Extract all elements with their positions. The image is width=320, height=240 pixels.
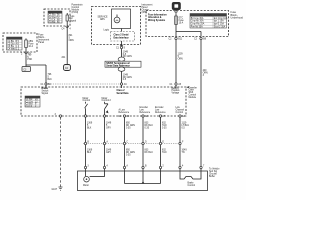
label Instrument Panel Cluster (IPC) — [142, 4, 153, 15]
wire label 821 ORN — [69, 35, 74, 42]
svg-text:Serial Data: Serial Data — [117, 92, 130, 95]
fuse ETC 10A — [175, 16, 178, 25]
node C1 A5 junction — [175, 83, 177, 85]
svg-text:FUSES: FUSES — [204, 15, 212, 17]
label Encoder Signal — [119, 108, 130, 113]
module box: Brake Pressure Modulator Valve (solid) — [78, 171, 208, 191]
splice pack top connector oval — [118, 57, 125, 61]
svg-text:10 A: 10 A — [179, 22, 184, 25]
label Class 2 Serial Data driver — [114, 35, 130, 40]
label Low Channel Control — [176, 107, 185, 114]
inline connector junctions — [84, 141, 184, 145]
svg-text:Control: Control — [176, 111, 184, 114]
serial data connector line (dotted) — [46, 83, 122, 85]
fuse detail table — [190, 14, 228, 29]
svg-text:Panel: Panel — [38, 42, 44, 44]
connector table in IP fuse block — [7, 37, 23, 51]
svg-text:Fuse Information: Fuse Information — [148, 14, 167, 17]
label Fuse Block - Underhood — [231, 11, 244, 20]
module box: Instrument Panel Cluster IPC (dashed) — [92, 7, 141, 45]
wire label 796 5 BLK — [48, 74, 53, 81]
wire lamp box to logic — [121, 29, 123, 32]
svg-text:Ign E 15A: Ign E 15A — [214, 23, 225, 26]
label Pump Motor Control — [83, 97, 91, 102]
svg-text:Allocation &: Allocation & — [148, 16, 162, 19]
node C1 B4 junction — [45, 83, 47, 85]
svg-text:BLK: BLK — [48, 79, 53, 81]
svg-text:Voltage: Voltage — [172, 92, 180, 95]
driver switch valves — [105, 102, 109, 115]
svg-text:SERVICE: SERVICE — [98, 17, 109, 19]
svg-text:Stud 2 30A: Stud 2 30A — [214, 26, 226, 29]
connector table in PCM box — [48, 11, 62, 24]
svg-text:SP205 Termination w/: SP205 Termination w/ — [106, 62, 130, 65]
fuse in PCM box — [66, 13, 69, 21]
pin bump at PCM exit — [66, 21, 68, 26]
entry bump at fuse block — [175, 11, 178, 13]
wire label 39 5 PNK — [27, 54, 32, 61]
svg-text:10 A: 10 A — [28, 45, 33, 48]
EBCM connector table — [25, 96, 40, 108]
svg-text:GRY: GRY — [106, 127, 111, 129]
module box: Electronic Brake Control Module EBCM (dashed) — [21, 87, 186, 116]
wire label 1119 LT BLU — [182, 123, 190, 130]
note Fuse Information Allocation — [148, 14, 167, 22]
svg-text:TAN: TAN — [162, 151, 167, 154]
svg-text:Logic: Logic — [104, 29, 110, 31]
wire fuse down — [175, 25, 177, 37]
BPMV pin junction row — [84, 165, 205, 169]
label SERVICE ABS — [98, 17, 109, 22]
wire wheel circuit 1 — [85, 117, 87, 166]
svg-text:Ext Cmp 10A: Ext Cmp 10A — [214, 17, 228, 20]
svg-text:Reference: Reference — [119, 111, 130, 114]
svg-text:C4 Clr: C4 Clr — [26, 105, 33, 108]
wire label 1369 5 BLK — [87, 123, 93, 130]
svg-text:ORN: ORN — [178, 58, 183, 60]
svg-text:C4 Wht: C4 Wht — [7, 48, 15, 51]
svg-text:Control: Control — [83, 99, 91, 102]
ignition feed icon — [172, 2, 181, 10]
svg-text:Cmp Mt 30A: Cmp Mt 30A — [191, 20, 204, 23]
module box: Fuse Block - Instrument Panel (dashed) — [3, 33, 37, 52]
svg-text:ORN: ORN — [69, 40, 74, 42]
svg-text:Control: Control — [188, 184, 196, 187]
node C1 9 junction — [121, 45, 123, 47]
indicator housing box in IPC — [112, 9, 131, 29]
svg-text:C2 Gry: C2 Gry — [7, 42, 15, 45]
ground wire pin — [59, 115, 61, 117]
wire label 833 YEL — [145, 123, 154, 130]
wire 39 PNK from IP fuse block — [25, 52, 27, 65]
wire stubs into BPMV — [86, 169, 202, 171]
inline connector line (dotted) — [83, 143, 182, 145]
svg-text:DK BLU: DK BLU — [145, 152, 154, 154]
wire encoder signal — [124, 117, 126, 166]
label Powertrain Control Module (PCM) — [72, 4, 84, 15]
svg-text:Ign 1 10A: Ign 1 10A — [214, 20, 224, 23]
label Battery Positive Voltage — [172, 87, 181, 95]
svg-text:Buffer: Buffer — [209, 175, 215, 178]
driver switch pump motor — [85, 102, 88, 115]
svg-text:Signal: Signal — [70, 21, 77, 23]
svg-text:0.35: 0.35 — [126, 154, 131, 156]
svg-text:Data Interface: Data Interface — [114, 36, 130, 39]
svg-text:Reference: Reference — [140, 111, 151, 114]
wire branch to stud — [176, 31, 201, 33]
node A6 junction — [120, 83, 122, 85]
ground G107 — [52, 187, 63, 191]
wire 1049 to splice pack — [121, 49, 123, 58]
label Encoder Power — [155, 106, 166, 114]
svg-text:C4 Blk: C4 Blk — [49, 22, 57, 24]
svg-text:(PCM): (PCM) — [72, 12, 79, 14]
svg-text:Underhood: Underhood — [231, 17, 244, 20]
wire label 850 DK GRN — [126, 123, 135, 130]
splice pack SP205 — [105, 61, 141, 67]
wire wheel circuit 2 — [104, 117, 106, 166]
label Fuse Block - Instrument Panel — [38, 35, 49, 45]
svg-text:0.35: 0.35 — [126, 127, 131, 129]
svg-text:BLK: BLK — [87, 127, 92, 129]
svg-text:Motor: Motor — [83, 184, 89, 187]
svg-text:GRY: GRY — [106, 152, 111, 154]
wire from PCM down — [66, 26, 68, 65]
svg-text:G107: G107 — [52, 189, 58, 191]
svg-text:0.35: 0.35 — [162, 127, 167, 129]
svg-text:0.35: 0.35 — [145, 127, 150, 129]
connector C3 stub box — [22, 65, 31, 72]
wire label 1049 5 DK GRN — [123, 51, 132, 58]
wire stub into EBCM — [45, 85, 47, 88]
pump motor — [83, 171, 105, 187]
label ABS Fuse 10A — [28, 40, 34, 48]
splice pack bottom connector oval — [118, 67, 125, 71]
wire label 1049 5 GRY — [106, 123, 112, 130]
svg-text:Pwr Mt 30A: Pwr Mt 30A — [191, 26, 203, 29]
wire stub into EBCM — [175, 85, 177, 88]
module box: Fuse Block - Underhood (dashed) — [146, 11, 229, 37]
svg-text:BLK: BLK — [87, 152, 92, 154]
label right of BPMV — [209, 169, 220, 179]
svg-text:Serial Data Reference: Serial Data Reference — [106, 65, 130, 68]
label Encoder Low Reference — [140, 106, 151, 114]
wire horizontal run to node — [26, 64, 46, 66]
wire encoder low ref — [142, 117, 144, 166]
internal valve link — [180, 171, 201, 187]
label Brake Switch Signal — [42, 88, 49, 95]
internal encoder bus bar — [125, 171, 161, 184]
svg-text:Class 2 Serial: Class 2 Serial — [114, 35, 129, 37]
connector pigtail under PCM wire — [64, 65, 71, 71]
svg-text:Module: Module — [189, 97, 197, 99]
wire splice pack to EBCM — [121, 71, 123, 83]
svg-text:Signal: Signal — [42, 93, 49, 95]
wire label 1139 ORN — [178, 54, 184, 61]
wire label 440 ORN — [203, 70, 208, 77]
label ETC Fuse 10 A — [179, 18, 185, 25]
module box: Powertrain Control Module PCM (dashed) — [44, 9, 70, 26]
svg-text:Control 2: Control 2 — [102, 99, 112, 102]
svg-text:ABS: ABS — [100, 18, 105, 21]
label Valve Control — [102, 97, 112, 102]
svg-text:Wiring Systems: Wiring Systems — [148, 19, 166, 22]
wire 440 ORN down to BPMV — [200, 40, 202, 167]
node C2 B9 junction — [200, 37, 202, 39]
wire encoder power — [160, 117, 162, 166]
EBCM bottom pin junctions — [84, 115, 185, 118]
svg-text:Cmp Rly 25A: Cmp Rly 25A — [191, 23, 205, 26]
lower wire labels — [87, 150, 187, 157]
svg-text:Reference: Reference — [155, 111, 166, 114]
svg-text:PNK: PNK — [27, 59, 32, 61]
indicator lamp — [114, 15, 120, 23]
svg-text:TN: TN — [182, 152, 185, 154]
pin bump at IPC exit — [121, 41, 123, 45]
wire label 1049 DK GRN 0.8 — [123, 74, 132, 81]
wire low channel — [179, 117, 181, 166]
wire down to EBCM pin — [45, 65, 47, 83]
branch arrow To Transfer Case — [186, 86, 197, 99]
pin bump at IP fuse block exit — [25, 52, 28, 53]
ground wire (dashed) to G107 — [60, 117, 62, 187]
label Auto Lvl Signal — [70, 15, 77, 23]
wire label 832 TAN — [162, 123, 167, 130]
wire 1139 down to EBCM — [175, 40, 177, 83]
label Class 2 Serial Data — [117, 90, 130, 95]
logic block (small dashed) — [111, 32, 135, 42]
svg-text:Brt Line 30A: Brt Line 30A — [191, 17, 204, 20]
node C2 B11 junction — [175, 37, 177, 39]
wire icon to fuse block — [175, 10, 177, 12]
fuse ABS 10A — [25, 38, 28, 52]
wire stub into EBCM — [121, 85, 123, 88]
